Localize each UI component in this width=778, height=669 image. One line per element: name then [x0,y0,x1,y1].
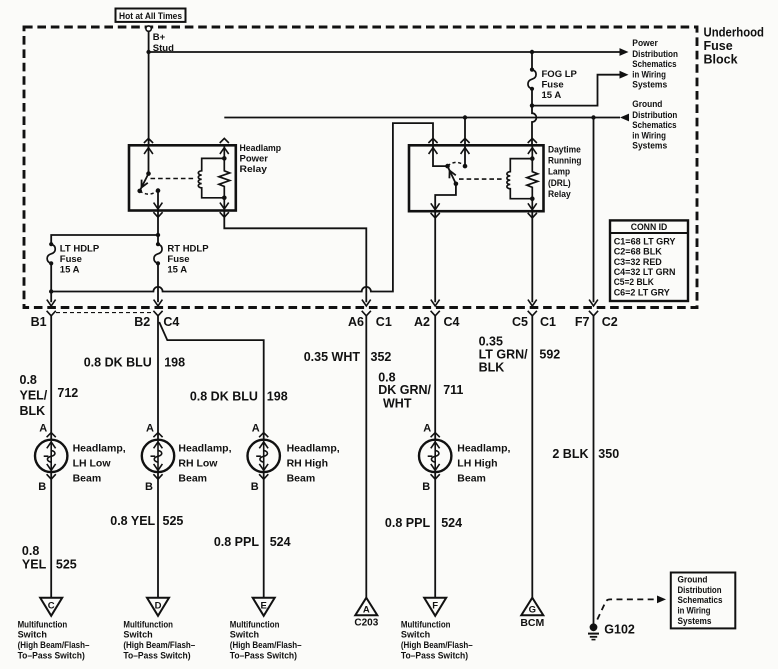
svg-text:C1: C1 [376,315,392,329]
connector chevron DRL common pin top [428,138,437,143]
connector chevron headlamp relay output bottom [153,212,162,217]
wire LH low beam to multifunction switch C [50,472,52,598]
svg-text:in Wiring: in Wiring [632,131,666,141]
svg-text:G102: G102 [604,623,635,637]
svg-text:C5: C5 [512,315,528,329]
connector triangle G to BCM [521,598,543,616]
wire fog fuse feed [531,52,533,70]
label C5 [512,315,528,329]
svg-text:198: 198 [164,356,185,370]
pin label B (LH Low) [38,481,46,493]
svg-text:D: D [155,601,162,612]
connector crossing A2 at fuse block border [431,300,440,316]
svg-text:RH Low: RH Low [178,458,218,470]
node junction fog fuse output [530,103,534,107]
B+ stud terminal [146,26,174,54]
fuse RT HDLP 15A [154,242,162,265]
label Multifunction Switch (D) [123,619,195,660]
label wire 0.8 DK BLU (branch) [190,389,258,403]
label Daytime Running Lamp (DRL) Relay [548,144,582,200]
label A6 [348,315,364,329]
label C2=68 BLK [614,247,662,257]
svg-text:2 BLK: 2 BLK [552,447,588,461]
svg-text:Distribution: Distribution [678,585,722,595]
label C6=2 LT GRY [614,287,670,297]
svg-text:RH High: RH High [287,458,328,470]
label circuit 198 (branch) [267,389,288,403]
node junction F7 ground tap [591,115,595,119]
label C4 (left) [163,315,179,329]
dashed connector link B1-B2 [56,312,153,314]
connector triangle A to C203 [355,598,377,616]
connector chevron DRL mid pin top [460,138,469,143]
connector crossing B1 at fuse block border [47,300,56,316]
node junction LT fuse output [49,289,53,293]
label wire 2 BLK [552,447,588,461]
connector chevron pin A of RH High beam lamp [259,433,268,438]
svg-text:Distribution: Distribution [632,49,678,59]
headlamp relay coil winding [198,158,224,197]
svg-text:15 A: 15 A [167,265,187,276]
svg-text:0.35 WHT: 0.35 WHT [304,350,361,364]
label wire 0.8 PPL (lamp3) [214,535,260,549]
DRL relay coil node top [530,156,535,161]
DRL relay contact node [463,164,468,169]
headlamp relay output pin [154,191,163,211]
wire headlamp relay coil to A6 (C203 control) [224,211,366,303]
svg-text:Schematics: Schematics [632,120,676,130]
svg-text:A: A [423,423,431,435]
svg-text:Multifunction: Multifunction [18,619,68,629]
svg-text:Beam: Beam [73,473,102,485]
svg-text:Systems: Systems [632,80,667,90]
pin label B (LH High) [422,481,430,493]
connector chevron headlamp relay coil bottom [220,212,229,217]
DRL relay contact pin [461,145,470,166]
svg-text:0.8: 0.8 [22,544,39,558]
connector chevron pin A of LH Low beam lamp [47,433,56,438]
svg-text:524: 524 [441,516,462,530]
label Ground Distribution Schematics in Wiring Systems (box) [678,574,723,626]
wire headlamp relay output down [157,211,159,236]
node junction fog fuse tap [530,50,534,54]
label RT HDLP Fuse 15 A [167,243,209,275]
pin label B (RH Low) [145,481,153,493]
svg-text:To–Pass Switch): To–Pass Switch) [401,651,468,661]
headlamp relay output node [156,188,161,193]
svg-text:YEL/: YEL/ [20,388,48,402]
svg-text:A: A [363,605,370,616]
svg-text:Daytime: Daytime [548,144,581,155]
wire C5 to BCM [531,316,533,598]
svg-text:A: A [146,423,154,435]
DRL relay coil resistor [527,145,538,211]
wire RT fuse output down to B2 [157,263,159,302]
svg-text:Systems: Systems [632,141,667,151]
svg-text:C6=2 LT GRY: C6=2 LT GRY [614,287,670,297]
wire fog output to power distribution schematics [532,71,629,106]
svg-text:0.8 YEL: 0.8 YEL [110,514,155,528]
DRL relay switch dashed throw [448,162,466,166]
headlamp relay coil resistor [219,145,230,210]
svg-text:BLK: BLK [20,404,46,418]
label circuit 198 (B2) [164,356,185,370]
svg-text:C: C [48,601,55,612]
svg-text:Systems: Systems [678,616,712,626]
fuse LT HDLP 15A [47,242,55,265]
label C203 [354,618,378,629]
label B1 [31,315,47,329]
label Ground Distribution Schematics in Wiring Systems [632,99,677,150]
wire LT fuse output down to B1 [50,263,52,302]
label wire 0.8 PPL (lamp4) [385,516,431,530]
svg-text:in Wiring: in Wiring [678,606,711,616]
svg-text:Fuse: Fuse [167,254,189,265]
label BCM [520,617,544,629]
wire fog fuse output to DRL relay coil (hops ground bus) [532,106,536,146]
svg-text:(High Beam/Flash–: (High Beam/Flash– [123,640,195,650]
label Headlamp RH Low Beam [178,443,231,485]
label Headlamp LH Low Beam [73,443,126,485]
wire ground bus to ground distribution schematics [224,114,629,122]
dashed leader G102 to ground distribution box [597,596,666,620]
label wire 0.8 DK GRN/WHT [378,370,431,410]
label Underhood Fuse Block [704,26,765,67]
connector crossing A6 at fuse block border [362,300,371,316]
label Power Distribution Schematics in Wiring Systems [632,38,678,89]
pin label A (RH High) [252,423,260,435]
DRL relay dashed actuation link [459,178,504,180]
wire B2 to RH low beam lamp [157,316,159,440]
svg-text:Relay: Relay [240,164,268,175]
svg-text:Multifunction: Multifunction [123,619,173,629]
svg-text:Power: Power [240,154,269,165]
svg-text:LT HDLP: LT HDLP [60,243,100,254]
svg-text:0.8 DK BLU: 0.8 DK BLU [190,389,258,403]
wire RH low beam to multifunction switch D [157,472,159,598]
label circuit 592 [539,348,560,362]
svg-text:Distribution: Distribution [632,110,677,120]
svg-text:F: F [432,601,438,612]
label wire 0.35 WHT [304,350,361,364]
svg-text:(High Beam/Flash–: (High Beam/Flash– [401,640,473,650]
wire A6 to C203 [365,316,367,598]
label circuit 525 (lamp2) [163,514,184,528]
label FOG LP Fuse 15 A [542,69,578,101]
label Headlamp LH High Beam [457,443,510,485]
svg-text:Schematics: Schematics [632,59,676,69]
label C3=32 RED [614,257,662,267]
power label box 'Hot at All Times' [116,9,186,22]
label circuit 712 [57,386,78,400]
label A2 [414,315,430,329]
svg-text:525: 525 [56,557,77,571]
connector chevron headlamp relay pin 30 top [144,138,153,143]
label C4=32 LT GRN [614,267,676,277]
svg-text:0.35: 0.35 [479,335,503,349]
svg-text:C5=2 BLK: C5=2 BLK [614,277,654,287]
relay box Daytime Running Lamp DRL Relay [409,145,544,211]
connector chevron DRL coil bottom [528,213,537,218]
label C4 (A2) [444,315,460,329]
svg-text:C3=32 RED: C3=32 RED [614,257,662,267]
svg-text:Multifunction: Multifunction [401,619,451,629]
pin label A (LH High) [423,423,431,435]
svg-text:C2: C2 [602,315,618,329]
svg-text:Power: Power [632,38,658,48]
connector crossing C5 at fuse block border [528,300,537,316]
relay box Headlamp Power Relay [129,145,236,210]
wire B+ feed to power distribution [149,48,629,56]
svg-text:A: A [39,423,47,435]
label C1 (C5) [540,315,556,329]
svg-text:LH Low: LH Low [73,458,112,470]
svg-text:To–Pass Switch): To–Pass Switch) [18,651,85,661]
headlamp relay dashed actuation link [151,178,196,180]
label F7 [575,315,590,329]
wire A2 to LH high beam lamp [434,316,436,440]
connector triangle F to multifunction switch [424,598,446,616]
node junction DRL relay contact to ground bus [463,115,467,119]
svg-text:15 A: 15 A [542,90,562,101]
label Headlamp Power Relay [240,143,282,175]
svg-text:CONN ID: CONN ID [631,222,668,233]
wire headlamp feed bus (hops B2 and A6 wires) [51,123,433,291]
svg-text:Hot at All Times: Hot at All Times [119,11,182,22]
svg-text:C4=32 LT GRN: C4=32 LT GRN [614,267,676,277]
svg-text:BLK: BLK [479,361,505,375]
svg-text:Relay: Relay [548,189,571,200]
pin label A (LH Low) [39,423,47,435]
label LT HDLP Fuse 15 A [60,243,100,275]
label circuit 350 [598,447,619,461]
svg-text:YEL: YEL [22,557,47,571]
label C1=68 LT GRY [614,236,676,246]
label wire 0.8 YEL (lamp1) [22,544,47,571]
svg-text:712: 712 [57,386,78,400]
svg-text:350: 350 [598,447,619,461]
DRL relay switch blade [448,166,456,184]
svg-text:Fuse: Fuse [60,254,82,265]
connector triangle D to multifunction switch [147,598,169,616]
label Multifunction Switch (F) [401,619,473,660]
svg-text:BCM: BCM [520,617,544,629]
label wire 0.8 YEL (lamp2) [110,514,155,528]
svg-text:592: 592 [539,348,560,362]
wire fog fuse output [531,89,533,106]
wire fuse feed to LT fuse [51,235,158,244]
svg-text:A: A [252,423,260,435]
connector chevron pin B of LH High beam lamp [431,474,440,479]
connector chevron headlamp relay coil pin top [220,138,229,143]
svg-text:Running: Running [548,156,582,167]
svg-text:E: E [261,601,267,612]
svg-text:To–Pass Switch): To–Pass Switch) [230,651,297,661]
svg-text:Beam: Beam [287,473,316,485]
svg-text:FOG LP: FOG LP [542,69,578,80]
svg-text:Headlamp,: Headlamp, [457,443,510,455]
connector chevron pin B of LH Low beam lamp [47,474,56,479]
svg-text:Beam: Beam [178,473,207,485]
lamp E2 Headlamp RH Low Beam [142,440,174,472]
headlamp relay coil node bottom [222,196,227,201]
connector chevron pin B of RH High beam lamp [259,474,268,479]
svg-text:B+: B+ [153,32,166,43]
svg-text:(High Beam/Flash–: (High Beam/Flash– [230,640,302,650]
wire LH high beam to multifunction switch F [434,472,436,598]
svg-text:Ground: Ground [632,99,662,109]
label wire 0.35 LT GRN/BLK [479,335,529,375]
svg-text:Switch: Switch [123,630,152,640]
lamp E3 Headlamp RH High Beam [248,440,280,472]
label Multifunction Switch (E) [230,619,302,660]
svg-text:Underhood: Underhood [704,26,765,40]
svg-text:(DRL): (DRL) [548,178,571,189]
label circuit 352 [371,350,392,364]
connector chevron pin A of RH Low beam lamp [153,433,162,438]
svg-text:Block: Block [704,53,738,67]
svg-text:C4: C4 [444,315,460,329]
svg-text:198: 198 [267,389,288,403]
svg-text:B: B [422,481,430,493]
wire B+ stud down to headlamp relay [148,31,150,145]
connector chevron pin A of LH High beam lamp [431,433,440,438]
pin label B (RH High) [251,481,259,493]
node junction at B+ feed [146,50,150,54]
svg-text:0.8 DK BLU: 0.8 DK BLU [84,356,152,370]
svg-text:Ground: Ground [678,574,708,584]
svg-text:C2=68 BLK: C2=68 BLK [614,247,662,257]
svg-text:Beam: Beam [457,473,486,485]
svg-text:Headlamp,: Headlamp, [73,443,126,455]
svg-text:DK GRN/: DK GRN/ [378,383,431,397]
DRL relay switch blade node [454,182,459,187]
svg-text:LH High: LH High [457,458,497,470]
svg-text:15 A: 15 A [60,265,80,276]
svg-text:0.8 PPL: 0.8 PPL [385,516,431,530]
label wire 0.8 DK BLU (B2) [84,356,152,370]
node junction fuse feed [156,233,160,237]
ground distribution reference box [671,573,736,629]
headlamp relay switch common pin [144,145,153,173]
ground G102 symbol [588,623,599,639]
connector triangle C to multifunction switch [40,598,62,616]
svg-text:0.8: 0.8 [20,373,37,387]
svg-text:352: 352 [371,350,392,364]
svg-text:Switch: Switch [401,630,430,640]
svg-text:C203: C203 [354,618,378,629]
connector ID table box [610,220,688,301]
headlamp relay switch contact [137,189,142,194]
svg-text:A6: A6 [348,315,364,329]
pin label A (RH Low) [146,423,154,435]
svg-text:G: G [529,605,536,616]
svg-text:Fuse: Fuse [542,79,564,90]
DRL relay coil node bottom [530,196,535,201]
connector chevron DRL coil pin top [528,138,537,143]
wire RH high beam to multifunction switch E [263,472,265,598]
svg-text:711: 711 [443,383,463,397]
svg-text:F7: F7 [575,315,590,329]
svg-text:Schematics: Schematics [678,595,723,605]
svg-text:Switch: Switch [230,630,259,640]
wire ground bus down to F7 [593,118,595,303]
DRL relay switch common pin [429,145,448,166]
lamp E1 Headlamp LH Low Beam [35,440,67,472]
label C5=2 BLK [614,277,654,287]
svg-text:WHT: WHT [383,396,412,410]
label B2 [134,315,150,329]
svg-text:B1: B1 [31,315,47,329]
label Multifunction Switch (C) [18,619,90,660]
lamp E4 Headlamp LH High Beam [419,440,451,472]
fuse FOG LP 15A [528,68,536,91]
connector chevron pin B of RH Low beam lamp [153,474,162,479]
svg-text:Headlamp,: Headlamp, [178,443,231,455]
DRL relay coil winding [507,159,532,199]
svg-text:RT HDLP: RT HDLP [167,243,209,254]
svg-text:0.8 PPL: 0.8 PPL [214,535,260,549]
wire F7 to G102 [593,316,595,624]
label C2 [602,315,618,329]
headlamp relay coil node top [222,156,227,161]
svg-text:Fuse: Fuse [704,39,733,53]
svg-text:A2: A2 [414,315,430,329]
wire DRL relay contact pin up to ground bus [464,118,466,146]
underhood fuse block dashed border [24,27,697,308]
connector triangle E to multifunction switch [253,598,275,616]
label C1 (A6) [376,315,392,329]
svg-text:Headlamp,: Headlamp, [287,443,340,455]
connector chevron DRL output bottom [431,213,440,218]
svg-text:To–Pass Switch): To–Pass Switch) [123,651,190,661]
label G102 [604,623,635,637]
svg-text:LT GRN/: LT GRN/ [479,348,529,362]
DRL relay output pin [431,184,456,211]
svg-text:525: 525 [163,514,184,528]
svg-text:Multifunction: Multifunction [230,619,280,629]
svg-text:in Wiring: in Wiring [632,70,666,80]
svg-text:C1: C1 [540,315,556,329]
label CONN ID [631,222,668,233]
svg-text:B: B [145,481,153,493]
label circuit 711 [443,383,463,397]
label wire 0.8 YEL/BLK [20,373,48,418]
headlamp relay switch blade [140,174,149,191]
svg-text:B2: B2 [134,315,150,329]
svg-text:(High Beam/Flash–: (High Beam/Flash– [18,640,90,650]
svg-text:C4: C4 [163,315,179,329]
svg-text:C1=68 LT GRY: C1=68 LT GRY [614,236,676,246]
connector crossing B2 at fuse block border [153,300,162,316]
wire DRL coil down to C5 [531,211,533,302]
label circuit 524 (lamp4) [441,516,462,530]
DRL relay switch pivot [445,164,450,169]
svg-text:B: B [251,481,259,493]
svg-text:Lamp: Lamp [548,167,570,178]
wire branch to RH high beam lamp [159,322,264,440]
label circuit 525 (lamp1) [56,557,77,571]
label Headlamp RH High Beam [287,443,340,485]
svg-text:Switch: Switch [18,630,47,640]
svg-text:B: B [38,481,46,493]
headlamp relay switch dashed throw [140,191,158,195]
wire DRL output down to A2 [434,211,436,302]
connector crossing F7 at fuse block border [589,300,598,316]
wire RT fuse feed [157,235,159,244]
wire B1 to LH low beam lamp [50,316,52,440]
svg-text:524: 524 [270,535,291,549]
